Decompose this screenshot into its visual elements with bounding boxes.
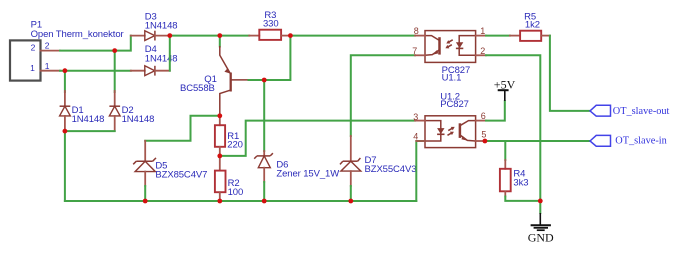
svg-text:1N4148: 1N4148: [72, 114, 105, 125]
node GND junction: [538, 199, 543, 204]
svg-text:Open Therm_konektor: Open Therm_konektor: [31, 29, 124, 40]
wire top rail to R3: [170, 35, 249, 37]
svg-text:U1.1: U1.1: [442, 73, 462, 84]
diode D1 1N4148: [60, 91, 105, 131]
svg-text:1N4148: 1N4148: [145, 21, 178, 32]
node D5 rail junction: [143, 199, 148, 204]
wire pin2 down to D2: [114, 51, 116, 92]
node emitter tap: [217, 33, 222, 38]
diode D3 1N4148: [131, 11, 178, 40]
wire base to junction: [249, 79, 265, 81]
svg-text:1: 1: [30, 63, 35, 73]
node collector junction: [217, 113, 222, 118]
wire D6 to rail: [263, 182, 265, 201]
node R1-R2 junction: [217, 154, 222, 159]
wire pin1 row to D4: [60, 70, 131, 72]
svg-text:2: 2: [45, 41, 50, 51]
wire pin5 to OT_slave-in flag: [485, 140, 590, 142]
wire D3-D4 link: [169, 36, 171, 71]
wire rail to pin8: [290, 35, 415, 37]
wire bottom rail: [65, 200, 416, 202]
pin 1: [476, 35, 486, 37]
zener diode D5 BZX85C4V7: [133, 141, 207, 186]
wire R4 bottom to GND junction: [505, 197, 540, 201]
wire D5 to rail: [144, 186, 146, 201]
svg-text:BC558B: BC558B: [180, 83, 215, 94]
svg-text:1: 1: [480, 26, 485, 36]
svg-text:2: 2: [31, 43, 36, 53]
svg-text:5: 5: [481, 129, 486, 139]
wire D1-D2 bottoms: [65, 130, 115, 132]
wire pin7 to D7: [351, 55, 415, 136]
wire R5 to OT_slave-out flag: [550, 36, 590, 111]
node D7 rail junction: [348, 199, 353, 204]
ground GND: [528, 213, 554, 245]
resistor R4 3k3: [500, 160, 529, 197]
diode D2 1N4148: [109, 91, 154, 131]
pin 3: [415, 120, 425, 122]
svg-text:1N4148: 1N4148: [145, 54, 178, 65]
node pin1 junction: [63, 68, 68, 73]
wire left drop to rail: [64, 131, 66, 201]
svg-text:220: 220: [227, 140, 243, 151]
svg-text:6: 6: [481, 111, 486, 121]
resistor R5 1k2: [510, 11, 550, 41]
node R3 right junction: [288, 33, 293, 38]
resistor R1 220: [215, 116, 243, 156]
node pin5 junction: [483, 139, 488, 144]
node base junction: [262, 78, 267, 83]
resistor R3 330: [249, 10, 290, 40]
node D6 rail junction: [262, 199, 267, 204]
svg-text:4: 4: [413, 132, 418, 142]
svg-text:OT_slave-in: OT_slave-in: [615, 136, 666, 147]
svg-text:1k2: 1k2: [525, 19, 540, 30]
light arrows: [445, 38, 453, 45]
svg-text:Zener 15V_1W: Zener 15V_1W: [276, 169, 339, 180]
wire R3 right to base: [264, 36, 290, 80]
diode D4 1N4148: [131, 44, 178, 76]
svg-text:OT_slave-out: OT_slave-out: [613, 106, 670, 117]
node OT_slave-in flag: [590, 135, 667, 146]
node R2 rail junction: [217, 199, 222, 204]
svg-text:3: 3: [413, 112, 418, 122]
resistor R2 100: [215, 156, 243, 201]
svg-text:7: 7: [412, 46, 417, 56]
connector P1: [10, 19, 124, 80]
wire base junction down to D6: [263, 80, 265, 151]
phototransistor: [459, 123, 462, 138]
light arrows: [447, 125, 455, 132]
wire pin2 row to D3 corner: [60, 36, 131, 51]
pin 6: [476, 120, 486, 122]
pin 7: [415, 54, 425, 56]
wire pin4 drop: [416, 141, 425, 201]
op-amp U1.1 PC827 optocoupler: [412, 26, 486, 84]
node D1 bottom junction: [63, 129, 68, 134]
wire R4 top: [504, 141, 506, 160]
op-amp U1.2 PC827 optocoupler: [413, 91, 486, 147]
transistor Q1 BC558B: [180, 46, 249, 116]
svg-text:3k3: 3k3: [513, 178, 528, 189]
node D3 junction: [167, 33, 172, 38]
pin 8: [415, 35, 425, 37]
node pin2 junction: [112, 48, 117, 53]
wire emitter drop: [219, 36, 221, 47]
svg-text:PC827: PC827: [440, 99, 469, 110]
svg-text:100: 100: [228, 187, 244, 198]
svg-text:GND: GND: [528, 231, 554, 245]
svg-text:2: 2: [480, 46, 485, 56]
svg-text:330: 330: [263, 19, 279, 30]
zener diode D7 BZX55C4V3: [340, 136, 416, 186]
wire pin1 down to D1: [64, 71, 66, 92]
svg-text:1: 1: [45, 61, 50, 71]
pin 5: [476, 140, 485, 142]
node OT_slave-out flag: [590, 105, 670, 117]
wire D7 to rail: [350, 186, 352, 201]
pin 4: [416, 140, 425, 142]
wire pin6 to +5V: [486, 101, 505, 121]
svg-text:BZX85C4V7: BZX85C4V7: [155, 169, 207, 180]
zener diode D6 Zener 15V_1W: [254, 151, 339, 182]
pin 2: [476, 54, 486, 56]
svg-text:8: 8: [414, 26, 419, 36]
phototransistor: [438, 37, 441, 54]
wire D5 link to collector: [145, 116, 220, 141]
wire R1R2 junction to pin3: [220, 121, 415, 156]
+5V supply symbol: [494, 78, 516, 101]
svg-text:BZX55C4V3: BZX55C4V3: [365, 164, 417, 175]
LED: [459, 36, 475, 56]
wire pin1 to R5: [486, 35, 510, 37]
svg-text:1N4148: 1N4148: [122, 114, 155, 125]
LED: [425, 121, 441, 141]
wire pin2 to GND: [486, 55, 540, 213]
